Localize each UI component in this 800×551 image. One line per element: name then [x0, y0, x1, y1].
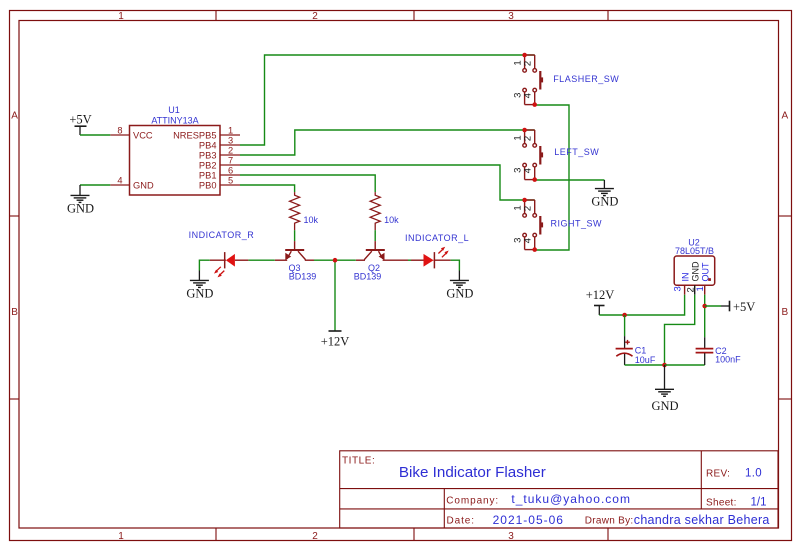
wire R1 to Q3 base [294, 230, 296, 241]
U1 pin stubs [110, 135, 240, 185]
wire Q2 emitter to LED L [408, 259, 411, 261]
LEFT_SW pin numbers [512, 135, 533, 173]
svg-text:+5V: +5V [733, 300, 755, 314]
svg-text:3: 3 [508, 11, 514, 22]
wire Q3 collector to node [314, 259, 335, 261]
svg-text:Date:: Date: [447, 516, 475, 527]
U1 pin numbers [117, 126, 233, 186]
svg-text:2: 2 [312, 11, 318, 22]
wire U2 GND pin to rail [665, 295, 695, 365]
svg-text:4: 4 [523, 93, 534, 98]
transistor Q3 BD139 [275, 241, 316, 281]
svg-text:8: 8 [117, 126, 122, 136]
junction FLASHER_SW pin4 [532, 102, 537, 107]
FLASHER_SW pin numbers [512, 60, 533, 98]
svg-text:3: 3 [508, 531, 514, 542]
wire LEFT_SW bottom to GND [535, 179, 605, 181]
svg-text:GND: GND [651, 399, 678, 413]
svg-text:+12V: +12V [321, 335, 350, 349]
wire junction to C1 [624, 315, 626, 336]
junction RIGHT_SW pin1 [522, 198, 527, 203]
svg-text:Bike Indicator Flasher: Bike Indicator Flasher [399, 464, 546, 481]
wire FLASHER_SW bottom to RIGHT_SW bottom [535, 105, 569, 250]
svg-text:B: B [781, 307, 788, 318]
junction FLASHER_SW pin1 [522, 53, 527, 58]
junction node +12V [333, 258, 338, 263]
svg-text:TITLE:: TITLE: [342, 455, 375, 466]
svg-text:2021-05-06: 2021-05-06 [493, 513, 564, 527]
switch RIGHT_SW [523, 200, 543, 250]
svg-text:GND: GND [446, 287, 473, 301]
power +5V at U1 VCC [69, 113, 91, 136]
svg-text:4: 4 [523, 238, 534, 243]
svg-text:3: 3 [228, 136, 233, 146]
title block texts [342, 455, 770, 527]
power +5V at U2 output [721, 300, 755, 314]
svg-text:78L05T/B: 78L05T/B [675, 246, 714, 256]
wire R2 to Q2 base [374, 230, 376, 241]
svg-text:4: 4 [117, 176, 122, 186]
svg-text:3: 3 [672, 286, 683, 291]
svg-text:BD139: BD139 [354, 271, 382, 281]
svg-text:2: 2 [523, 206, 534, 211]
wire +5V to U1 pin 8 [80, 134, 110, 136]
svg-text:GND: GND [133, 180, 154, 190]
junction GND rail [662, 363, 667, 368]
svg-text:PB0: PB0 [199, 180, 217, 190]
svg-text:IN: IN [681, 273, 691, 282]
svg-text:GND: GND [591, 195, 618, 209]
resistor R1 10k [290, 192, 319, 230]
wire node to Q2 collector [335, 259, 356, 261]
junction +5V output [702, 304, 707, 309]
wire LED R to GND [199, 260, 209, 270]
svg-text:C1: C1 [635, 346, 647, 356]
svg-text:B: B [11, 307, 18, 318]
svg-text:Company:: Company: [446, 496, 499, 507]
wire node to +12V [334, 260, 336, 331]
wire Q3 emitter to LED R [248, 259, 274, 261]
regulator U2 78L05T/B [672, 237, 714, 294]
ground GND at LED L [446, 271, 473, 301]
wire +12V to U2 IN [599, 295, 684, 315]
svg-text:1/1: 1/1 [751, 497, 767, 509]
junction RIGHT_SW pin4 [532, 247, 537, 252]
title block [340, 451, 778, 528]
svg-text:1: 1 [228, 126, 233, 136]
switch FLASHER_SW [523, 55, 543, 105]
wire PB4 to FLASHER_SW [240, 55, 535, 145]
ground GND at U1 pin 4 [67, 185, 110, 216]
power +12V at transistors [321, 331, 350, 349]
svg-text:ATTINY13A: ATTINY13A [151, 115, 198, 125]
svg-text:BD139: BD139 [289, 271, 317, 281]
LED INDICATOR_L [405, 233, 469, 269]
svg-text:1: 1 [118, 11, 124, 22]
wire LED L to GND [451, 260, 460, 270]
svg-text:VCC: VCC [133, 130, 153, 140]
wire rail to C2 [665, 364, 705, 366]
junction C1 top [622, 313, 627, 318]
svg-text:INDICATOR_R: INDICATOR_R [189, 230, 255, 240]
wire OUT to +5V [705, 305, 721, 307]
svg-text:GND: GND [186, 287, 213, 301]
svg-text:A: A [781, 111, 788, 122]
capacitor C1 10uF [616, 336, 656, 365]
power +12V at U2 input [586, 288, 615, 315]
svg-text:+5V: +5V [69, 113, 91, 127]
capacitor C2 100nF [696, 337, 742, 365]
svg-text:4: 4 [523, 168, 534, 173]
wire C1 to GND rail [625, 364, 665, 366]
wire PB3 to LEFT_SW [240, 130, 535, 155]
svg-text:Drawn By:: Drawn By: [585, 516, 634, 527]
wire PB1 to R2 [240, 175, 375, 192]
svg-text:INDICATOR_L: INDICATOR_L [405, 233, 469, 243]
svg-text:2: 2 [523, 61, 534, 66]
junction LEFT_SW pin1 [522, 128, 527, 133]
svg-text:10k: 10k [304, 215, 319, 225]
svg-text:t_tuku@yahoo.com: t_tuku@yahoo.com [511, 492, 631, 506]
wire U2 OUT down [704, 295, 706, 338]
svg-text:GND: GND [690, 261, 700, 282]
svg-text:+12V: +12V [586, 288, 615, 302]
IC U1 ATTINY13A [130, 105, 221, 195]
svg-text:10k: 10k [384, 215, 399, 225]
svg-text:FLASHER_SW: FLASHER_SW [553, 74, 619, 84]
ground GND at switches [591, 180, 618, 209]
svg-text:LEFT_SW: LEFT_SW [554, 147, 599, 157]
svg-text:Sheet:: Sheet: [706, 498, 737, 509]
ground GND at U2 [651, 365, 678, 413]
svg-text:REV:: REV: [706, 468, 730, 479]
svg-text:NRESPB5: NRESPB5 [173, 130, 216, 140]
resistor R2 10k [370, 192, 399, 230]
ground GND at LED R [186, 271, 213, 301]
svg-text:2: 2 [523, 136, 534, 141]
svg-text:RIGHT_SW: RIGHT_SW [551, 219, 603, 229]
svg-text:PB3: PB3 [199, 150, 217, 160]
svg-text:PB2: PB2 [199, 160, 217, 170]
svg-text:10uF: 10uF [635, 355, 656, 365]
transistor Q2 BD139 [354, 241, 408, 281]
svg-text:6: 6 [228, 166, 233, 176]
svg-text:2: 2 [312, 531, 318, 542]
switch LEFT_SW [523, 130, 543, 180]
svg-text:5: 5 [228, 176, 233, 186]
svg-text:7: 7 [228, 156, 233, 166]
svg-text:U1: U1 [168, 105, 180, 115]
svg-text:chandra sekhar Behera: chandra sekhar Behera [634, 513, 770, 527]
LED INDICATOR_R [189, 230, 255, 278]
svg-text:A: A [11, 111, 18, 122]
wire PB2 to RIGHT_SW [240, 165, 535, 200]
U1 pin names [133, 130, 217, 190]
svg-text:100nF: 100nF [715, 355, 741, 365]
svg-text:1: 1 [118, 531, 124, 542]
RIGHT_SW pin numbers [512, 205, 533, 243]
svg-text:GND: GND [67, 202, 94, 216]
wire PB0 to R1 [240, 185, 295, 192]
junction LEFT_SW pin4 [532, 177, 537, 182]
svg-text:PB4: PB4 [199, 140, 217, 150]
svg-text:PB1: PB1 [199, 170, 217, 180]
svg-text:2: 2 [228, 146, 233, 156]
svg-text:1.0: 1.0 [745, 467, 762, 479]
